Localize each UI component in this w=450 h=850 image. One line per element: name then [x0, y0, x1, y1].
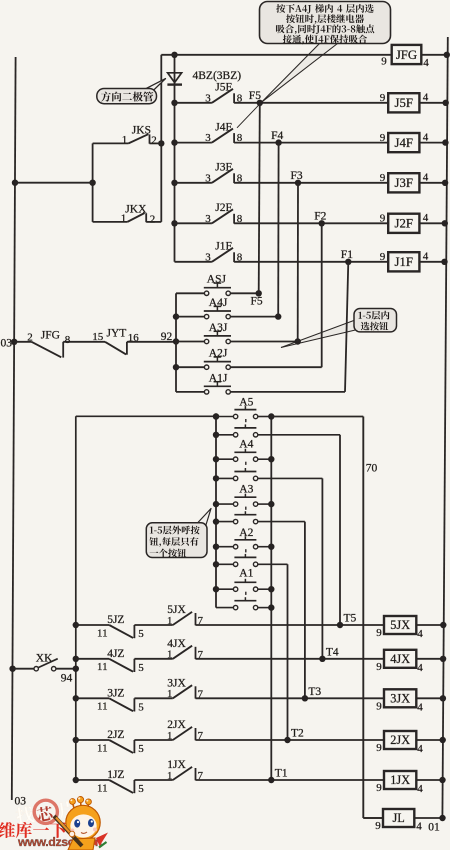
svg-text:3: 3	[205, 251, 211, 263]
svg-text:4BZ(3BZ): 4BZ(3BZ)	[193, 70, 242, 82]
svg-text:92: 92	[161, 331, 173, 343]
relay JL	[383, 809, 414, 827]
node A1 upper row on left bus	[213, 586, 219, 592]
node J5F bus junction	[443, 100, 449, 106]
wire ASJ row left	[176, 292, 204, 294]
wire J3F row left segment	[175, 182, 212, 184]
node 5JZ row on 94 bus	[73, 622, 79, 628]
svg-text:9: 9	[380, 92, 386, 104]
svg-text:4: 4	[423, 172, 429, 184]
node A1 upper on right bus	[268, 586, 274, 592]
wire JKX row left	[93, 221, 128, 223]
svg-text:A4J: A4J	[209, 297, 228, 309]
wire A3 upper row right	[258, 503, 272, 505]
svg-text:F1: F1	[341, 249, 353, 261]
svg-text:9: 9	[376, 661, 382, 673]
wire A-button left bus vertical	[215, 417, 217, 608]
wire F5 vertical	[259, 103, 260, 293]
svg-text:11: 11	[97, 782, 108, 794]
wire A4J row to F4	[230, 316, 278, 318]
svg-text:J4F: J4F	[395, 136, 414, 150]
svg-text:4: 4	[423, 92, 429, 104]
contact 2JX 1-7	[173, 727, 196, 740]
svg-text:94: 94	[61, 673, 73, 685]
svg-text:03: 03	[15, 796, 27, 808]
wire A-J button bus vertical	[175, 293, 177, 392]
wire 70 line vertical	[363, 417, 383, 819]
node T3	[302, 695, 308, 701]
node A1 lower on right bus	[268, 604, 274, 610]
svg-text:4: 4	[417, 662, 423, 674]
svg-text:4: 4	[417, 701, 423, 713]
svg-text:2: 2	[150, 213, 156, 225]
svg-text:J1F: J1F	[395, 255, 414, 269]
svg-text:T3: T3	[308, 686, 321, 698]
svg-text:9: 9	[380, 213, 386, 225]
svg-text:11: 11	[97, 627, 108, 639]
pushbutton A5 lower contact	[233, 424, 257, 437]
svg-text:T1: T1	[275, 768, 288, 780]
contact JKS 1-2	[129, 134, 162, 144]
svg-text:J2F: J2F	[395, 217, 414, 231]
node XK on 94 bus	[73, 666, 79, 672]
node T4	[319, 656, 325, 662]
pushbutton A2 lower contact	[233, 554, 257, 567]
svg-text:J5F: J5F	[395, 96, 414, 110]
wire JKS row left	[93, 142, 129, 144]
svg-text:XK: XK	[36, 653, 53, 665]
callout A4J explanation tail	[262, 44, 338, 103]
relay JFG	[392, 45, 422, 64]
svg-text:1: 1	[167, 615, 173, 627]
svg-text:F3: F3	[291, 170, 303, 182]
pushbutton A4 upper contact	[233, 449, 257, 462]
svg-text:5: 5	[138, 743, 144, 755]
svg-text:J4F: J4F	[215, 121, 232, 133]
svg-text:4: 4	[417, 628, 423, 640]
svg-text:11: 11	[97, 661, 108, 673]
wire 5JZ row left	[76, 624, 109, 626]
node 2JX bus junction	[440, 737, 446, 743]
svg-text:1JX: 1JX	[390, 773, 410, 787]
svg-text:3: 3	[205, 213, 211, 225]
pushbutton A4 lower contact	[233, 468, 257, 481]
wire XK to 94 bus	[56, 668, 76, 670]
callout direction diode bubble	[97, 79, 166, 104]
label A4J explanation text	[276, 4, 373, 13]
svg-text:T5: T5	[344, 613, 357, 625]
node A2 upper on right bus	[268, 544, 274, 550]
pushbutton ASJ	[204, 283, 231, 295]
svg-text:1: 1	[167, 649, 173, 661]
diode 4BZ(3BZ)	[167, 73, 182, 85]
node F5	[257, 100, 263, 106]
node 1JX bus junction	[439, 777, 445, 783]
svg-text:JKS: JKS	[132, 124, 151, 136]
pushbutton A5 upper contact	[233, 406, 257, 419]
node J2F bus junction	[442, 220, 448, 226]
node 1JZ row on 94 bus	[73, 777, 79, 783]
callout hall-call buttons bubble	[146, 509, 211, 558]
linkage A4 dashed	[245, 462, 247, 468]
wire 5JX relay to bus	[416, 624, 444, 626]
wire J4F row left segment	[175, 142, 212, 144]
node F4	[275, 139, 281, 145]
node diode branch on top rail	[171, 52, 177, 58]
label hall-call buttons text	[150, 526, 200, 535]
wire feed from 03 bus	[15, 182, 93, 184]
node A3 lower row on left bus	[213, 518, 219, 524]
node A-button feed junction	[213, 413, 219, 419]
svg-text:J1F: J1F	[215, 241, 232, 253]
svg-text:9: 9	[376, 782, 382, 794]
contact 5JX 1-7	[173, 612, 196, 625]
svg-text:2: 2	[27, 331, 33, 343]
linkage A1 dashed	[245, 592, 247, 597]
svg-text:1: 1	[167, 688, 173, 700]
wire J1F row to relay	[234, 261, 388, 263]
svg-text:2JX: 2JX	[390, 733, 410, 747]
contact 3JX 1-7	[173, 685, 196, 698]
svg-text:03: 03	[1, 338, 13, 350]
contact 3JZ 11-5	[109, 698, 173, 711]
wire A1J row to F1	[230, 391, 345, 393]
svg-text:3: 3	[205, 172, 211, 184]
wire ASJ row to F5	[230, 292, 258, 294]
wire J5F row to relay	[234, 102, 388, 104]
wire A1J row left	[176, 391, 204, 393]
contact JFG 2-8	[32, 342, 106, 358]
svg-text:5: 5	[138, 662, 144, 674]
wire A-button right bus / T1 vertical	[270, 417, 272, 781]
wire JFG to bus	[421, 54, 447, 56]
wire A3 lower row left	[216, 521, 233, 523]
node 3JX bus junction	[440, 695, 446, 701]
svg-text:9: 9	[376, 627, 382, 639]
svg-text:4: 4	[417, 783, 423, 795]
wire A4 upper row right	[258, 458, 272, 460]
relay J2F	[388, 214, 419, 233]
wire A2 upper row right	[258, 546, 272, 548]
svg-text:A3: A3	[239, 484, 253, 496]
wire A1 upper row left	[216, 588, 233, 590]
watermark weiku text	[0, 822, 66, 838]
svg-text:3: 3	[205, 92, 211, 104]
contact JYT 15-16	[105, 342, 176, 355]
node A3J-F3 junction	[295, 338, 301, 344]
svg-text:11: 11	[97, 701, 108, 713]
contact J4F 3-8 normally-open	[212, 129, 234, 143]
wire 2JZ row left	[76, 739, 109, 741]
wire diode branch vertical	[174, 55, 176, 262]
node 5JX bus junction	[440, 622, 446, 628]
svg-text:5: 5	[138, 783, 144, 795]
node T1	[268, 777, 274, 783]
linkage A5 dashed	[245, 419, 247, 424]
node A4J-F4 junction	[275, 313, 281, 319]
svg-text:A2J: A2J	[209, 348, 228, 360]
contact 4JX 1-7	[173, 646, 196, 659]
wire JKS-JKX right vertical to top rail	[160, 55, 162, 222]
node A4 upper on right bus	[268, 456, 274, 462]
svg-text:A2: A2	[239, 527, 253, 539]
node JL bus junction	[439, 815, 445, 821]
node A2 lower row on left bus	[213, 561, 219, 567]
wire XK row from 03 bus	[13, 668, 34, 670]
node F3	[295, 180, 301, 186]
node ASJ-F5 junction	[256, 290, 262, 296]
node 03 bus to XK row junction	[9, 666, 15, 672]
node A3 upper row on left bus	[213, 501, 219, 507]
svg-text:T2: T2	[291, 728, 304, 740]
wire A1 upper row right	[258, 588, 272, 590]
node A5 lower row on left bus	[213, 432, 219, 438]
svg-text:J3F: J3F	[395, 176, 414, 190]
label car-call buttons text	[359, 311, 390, 320]
node T5	[337, 622, 343, 628]
node A2J row on button bus	[173, 364, 179, 370]
relay 4JX	[384, 650, 416, 668]
node J3F bus junction	[442, 180, 448, 186]
svg-text:2JZ: 2JZ	[107, 729, 124, 741]
linkage A3 dashed	[245, 507, 247, 512]
svg-text:T4: T4	[326, 646, 339, 658]
contact JKX 1-2	[127, 213, 161, 222]
svg-text:9: 9	[376, 742, 382, 754]
wire J1F row left segment	[175, 261, 212, 263]
wire J1F relay to bus	[419, 261, 446, 263]
svg-text:3JZ: 3JZ	[107, 687, 124, 699]
wire J2F row left segment	[175, 222, 212, 224]
svg-text:F5: F5	[251, 296, 263, 308]
svg-text:11: 11	[97, 742, 108, 754]
svg-text:JL: JL	[392, 811, 404, 825]
svg-text:4: 4	[423, 57, 429, 69]
svg-text:A4: A4	[239, 439, 253, 451]
svg-text:J2F: J2F	[215, 202, 232, 214]
node A2 upper row on left bus	[213, 544, 219, 550]
node A5 upper row on left bus	[213, 413, 219, 419]
svg-text:4: 4	[423, 251, 429, 263]
node J1F bus junction	[441, 259, 447, 265]
node 4JZ row on 94 bus	[73, 656, 79, 662]
svg-text:JYT: JYT	[107, 328, 127, 340]
svg-text:9: 9	[381, 56, 387, 68]
callout car-call tail	[281, 320, 358, 348]
relay J1F	[388, 252, 419, 271]
svg-text:3JX: 3JX	[390, 692, 410, 706]
svg-text:9: 9	[380, 251, 386, 263]
wire JL row left	[363, 817, 383, 819]
svg-text:A1J: A1J	[209, 372, 228, 384]
svg-text:5JZ: 5JZ	[107, 614, 124, 626]
wire JKS-JKX left vertical	[92, 143, 94, 222]
svg-text:4: 4	[417, 743, 423, 755]
node feed junction on JKS-JKX left vertical	[89, 180, 95, 186]
contact 2JZ 11-5	[109, 740, 173, 753]
wire A5 upper row right	[258, 416, 272, 418]
wire A3 lower row to T drop	[258, 522, 305, 699]
contact J5F 3-8 normally-open	[212, 89, 234, 103]
node diode branch J5F row	[171, 100, 177, 106]
wire F2 vertical	[321, 223, 323, 367]
svg-text:4: 4	[423, 131, 429, 143]
svg-text:1: 1	[122, 134, 128, 146]
wire right supply bus vertical	[442, 37, 447, 818]
svg-text:15: 15	[92, 331, 104, 343]
wire 03 bus left vertical	[12, 57, 16, 800]
wire A1 lower row right	[258, 607, 272, 609]
svg-text:F5: F5	[249, 90, 261, 102]
pushbutton A1 lower contact	[233, 597, 257, 610]
label direction diode text	[101, 92, 153, 102]
callout car-call buttons bubble	[354, 309, 397, 332]
svg-text:9: 9	[380, 132, 386, 144]
relay 1JX	[384, 771, 416, 789]
wire A4 upper row left	[216, 458, 233, 460]
svg-text:5JX: 5JX	[390, 618, 410, 632]
wire 4JZ row left	[76, 658, 109, 660]
relay J5F	[388, 93, 419, 112]
wire J3F relay to bus	[419, 182, 446, 184]
contact J1F 3-8 normally-open	[212, 248, 234, 262]
pushbutton A1 upper contact	[233, 579, 257, 592]
wire A5 lower row to T drop	[258, 435, 340, 625]
relay J3F	[388, 173, 419, 192]
relay 5JX	[384, 616, 416, 634]
wire F4 vertical	[277, 143, 279, 317]
node 3JZ row on 94 bus	[73, 695, 79, 701]
node A4 lower row on left bus	[213, 475, 219, 481]
wire J3F row to relay	[234, 182, 388, 184]
wire A4 lower row left	[216, 477, 233, 479]
svg-text:1: 1	[167, 770, 173, 782]
svg-text:4: 4	[416, 821, 422, 833]
node diode branch J4F row	[171, 139, 177, 145]
watermark zhaoxinpian outline text	[15, 799, 77, 827]
svg-text:9: 9	[376, 700, 382, 712]
svg-text:JFG: JFG	[41, 330, 60, 342]
svg-text:F2: F2	[314, 211, 326, 223]
wire A1 lower row left	[216, 607, 233, 609]
wire A3J row left	[176, 341, 204, 343]
node 03 bus to JKS-JKX feed junction	[12, 180, 18, 186]
contact J3F 3-8 normally-open	[212, 169, 234, 183]
wire F3 vertical	[297, 183, 299, 342]
wire A3 upper row left	[216, 503, 233, 505]
svg-text:1: 1	[121, 213, 127, 225]
wire 3JX row to relay	[196, 697, 385, 699]
node diode branch J2F row	[171, 220, 177, 226]
node A4J row on button bus	[173, 313, 179, 319]
leader line to J4F contact	[237, 102, 262, 128]
pushbutton A2J	[204, 357, 231, 369]
wire A4 lower row to T drop	[258, 478, 323, 658]
svg-text:9: 9	[380, 172, 386, 184]
svg-text:A1: A1	[239, 568, 253, 580]
watermark mascot	[54, 797, 108, 850]
wire 1JX row to relay	[196, 779, 385, 781]
pushbutton A3 lower contact	[233, 511, 257, 524]
node J4F bus junction	[442, 139, 448, 145]
node 4JX bus junction	[440, 656, 446, 662]
wire JFG-JYT row from 03 bus	[14, 341, 31, 343]
wire A4J row left	[176, 316, 204, 318]
watermark dot after url	[94, 841, 98, 845]
node 92 junction	[173, 338, 179, 344]
svg-text:J3F: J3F	[215, 162, 232, 174]
wire J2F relay to bus	[419, 222, 446, 224]
svg-text:A5: A5	[239, 397, 253, 409]
svg-text:ASJ: ASJ	[207, 274, 227, 286]
callout A4J explanation bubble	[260, 2, 391, 44]
svg-text:1: 1	[167, 730, 173, 742]
wire J5F row left segment	[175, 102, 212, 104]
wire A5 upper row to 70 line	[271, 416, 363, 418]
relay J4F	[388, 133, 419, 152]
node F2	[319, 220, 325, 226]
node A5 upper on right bus	[268, 413, 274, 419]
svg-text:4JZ: 4JZ	[107, 648, 124, 660]
wire top rail JFG row	[161, 54, 391, 56]
watermark red ring	[34, 800, 57, 823]
wire 2JX row to relay	[196, 739, 385, 741]
pushbutton A1J	[204, 382, 231, 394]
wire F1 vertical	[345, 262, 348, 392]
svg-text:5: 5	[138, 628, 144, 640]
contact 1JZ 11-5	[109, 780, 173, 793]
relay 3JX	[384, 689, 416, 707]
svg-text:8: 8	[65, 334, 71, 346]
wire 4JX relay to bus	[416, 658, 444, 660]
node 03 bus to JFG row junction	[11, 339, 17, 345]
svg-text:F4: F4	[271, 130, 283, 142]
wire 4JX row to relay	[196, 658, 385, 660]
wire A2 upper row left	[216, 546, 233, 548]
node JFG bus junction	[444, 52, 450, 58]
svg-text:9: 9	[375, 820, 381, 832]
pushbutton A4J	[204, 306, 231, 318]
wire 5JX row to relay	[196, 624, 385, 626]
svg-text:4JX: 4JX	[390, 652, 410, 666]
svg-text:1JZ: 1JZ	[107, 769, 124, 781]
wire 94 bus vertical	[76, 416, 216, 780]
wire A5 upper row left	[216, 416, 233, 418]
svg-text:4: 4	[423, 212, 429, 224]
svg-text:JKX: JKX	[125, 204, 147, 216]
wire 2JX relay to bus	[416, 739, 444, 741]
wire A5 lower row left	[216, 434, 233, 436]
svg-text:70: 70	[366, 463, 378, 475]
svg-text:01: 01	[428, 822, 440, 834]
wire A2J row left	[176, 366, 204, 368]
node A3 upper on right bus	[268, 501, 274, 507]
svg-text:5: 5	[138, 701, 144, 713]
node F1	[345, 259, 351, 265]
svg-text:16: 16	[128, 332, 140, 344]
wire 1JZ row left	[76, 779, 109, 781]
wire A2 lower row left	[216, 563, 233, 565]
wire J4F relay to bus	[419, 142, 446, 144]
pushbutton A3J	[204, 331, 231, 343]
node A4 upper row on left bus	[213, 456, 219, 462]
pushbutton A2 upper contact	[233, 536, 257, 549]
linkage A2 dashed	[245, 549, 247, 554]
wire J2F row to relay	[234, 222, 388, 224]
svg-text:2: 2	[151, 134, 157, 146]
relay 2JX	[384, 731, 416, 749]
wire 3JZ row left	[76, 697, 109, 699]
